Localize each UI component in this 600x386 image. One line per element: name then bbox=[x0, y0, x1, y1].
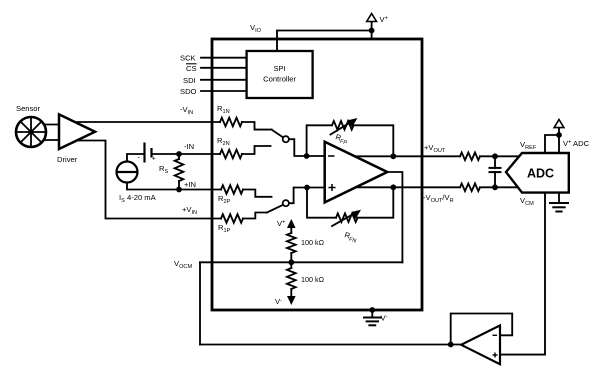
capacitor across outputs bbox=[494, 156, 496, 168]
node amp minus input bbox=[304, 153, 310, 159]
wire R1P to switch throw bbox=[243, 213, 267, 219]
wire amp VOCM apex line bbox=[385, 172, 402, 262]
wire buffer output rail bbox=[200, 344, 466, 346]
wire V+ stem to box bbox=[371, 22, 373, 40]
switch contact circle N bbox=[283, 136, 289, 142]
node V+ ADC junction bbox=[556, 132, 562, 138]
SPI Controller box bbox=[247, 51, 313, 98]
svg-text:Driver: Driver bbox=[57, 155, 78, 164]
wire switch P common to plus node bbox=[289, 188, 307, 204]
resistor R1N bbox=[220, 118, 242, 127]
wire R2P open stub bbox=[243, 190, 272, 197]
driver amp triangle bbox=[59, 114, 95, 149]
node V- box bottom bbox=[369, 307, 375, 313]
wire VREF loop bbox=[545, 135, 559, 153]
resistor output top bbox=[460, 153, 480, 161]
resistor RFN (variable) bbox=[336, 213, 358, 222]
svg-text:+: + bbox=[152, 156, 156, 163]
svg-text:-IN: -IN bbox=[184, 142, 194, 151]
wire battery to -IN rail bbox=[152, 153, 220, 155]
RFN arrow bbox=[332, 213, 356, 227]
current source IS bbox=[117, 162, 138, 183]
resistor output bottom bbox=[460, 184, 480, 192]
switch contact circle P bbox=[283, 200, 289, 206]
node +IN at RS bottom bbox=[176, 187, 182, 193]
buffer op-amp triangle bbox=[461, 325, 500, 364]
resistor R2N bbox=[220, 150, 242, 159]
node -VOUT feedback bbox=[390, 184, 396, 190]
node amp plus input bbox=[304, 185, 310, 191]
node capacitor bottom bbox=[492, 184, 498, 190]
wire sensor to driver bottom bbox=[42, 139, 62, 141]
wire V+ ADC stem bbox=[558, 128, 560, 135]
wire SDO bbox=[201, 90, 247, 92]
wire minus node to amp bbox=[307, 155, 330, 157]
ground ADC bbox=[550, 202, 568, 204]
node divider midpoint bbox=[288, 259, 294, 265]
switch blade P bbox=[267, 205, 283, 213]
ADC block bbox=[506, 153, 569, 193]
node buffer output bbox=[448, 342, 454, 348]
wire switch N common to minus node bbox=[289, 139, 307, 156]
svg-text:Sensor: Sensor bbox=[16, 104, 41, 113]
svg-text:SDO: SDO bbox=[180, 87, 197, 96]
svg-text:SCK: SCK bbox=[180, 54, 196, 63]
wire +VIN from driver bottom bbox=[74, 141, 221, 219]
sensor symbol bbox=[16, 117, 46, 147]
svg-text:CS: CS bbox=[186, 64, 197, 73]
RFP arrow bbox=[331, 121, 353, 135]
main diff amp triangle bbox=[325, 142, 388, 203]
resistor R1P bbox=[221, 214, 243, 223]
node -IN at RS top bbox=[176, 151, 182, 157]
wire +VOUT rail bbox=[352, 155, 460, 157]
node +VOUT feedback bbox=[390, 153, 396, 159]
switch blade N bbox=[272, 130, 284, 138]
wire RFN left vertical bbox=[307, 188, 336, 218]
svg-text:ADC: ADC bbox=[527, 167, 554, 181]
wire -VOUT rail bbox=[352, 186, 460, 188]
wire VIO bbox=[277, 31, 372, 52]
node VIO/V+ junction bbox=[369, 28, 375, 34]
resistor 100k lower bbox=[290, 262, 292, 268]
wire buffer plus input bbox=[499, 193, 545, 355]
power V- divider arrow bbox=[290, 289, 292, 297]
wire SDI bbox=[201, 79, 247, 81]
resistor RS bbox=[175, 159, 184, 181]
power V+ ADC (open triangle) bbox=[554, 120, 564, 128]
wire current source bottom to +IN rail bbox=[127, 182, 221, 190]
svg-text:SPI: SPI bbox=[273, 64, 285, 73]
svg-text:Controller: Controller bbox=[263, 75, 296, 84]
resistor 100k upper bbox=[287, 233, 296, 253]
svg-text:+IN: +IN bbox=[184, 180, 196, 189]
battery symbol bbox=[145, 143, 152, 163]
svg-text:100 kΩ: 100 kΩ bbox=[301, 275, 325, 284]
wire V- ground stem bbox=[371, 310, 373, 318]
wire R2N open stub bbox=[242, 146, 271, 154]
wire VOCM vertical bbox=[199, 262, 201, 344]
wire R1N to switch throw bbox=[242, 122, 272, 130]
ground V- (box bottom) bbox=[364, 317, 381, 319]
wire SCK bbox=[201, 57, 247, 59]
wire current source top to battery bbox=[127, 154, 144, 162]
power V+ divider arrow bbox=[290, 226, 292, 233]
wire sensor to driver top bbox=[42, 124, 62, 126]
wire buffer feedback loop bbox=[451, 314, 513, 345]
svg-text:100 kΩ: 100 kΩ bbox=[301, 238, 325, 247]
wire ADC ground stem bbox=[558, 193, 560, 203]
svg-text:V+ ADC: V+ ADC bbox=[563, 139, 590, 148]
resistor RFP (variable) bbox=[332, 121, 354, 130]
node capacitor top bbox=[492, 153, 498, 159]
main amplifier box U1 bbox=[212, 39, 422, 310]
wire VOCM horizontal bbox=[200, 261, 402, 263]
wire -VIN from driver to box bbox=[72, 121, 220, 123]
svg-text:SDI: SDI bbox=[183, 76, 196, 85]
wire RFP right vertical bbox=[354, 125, 394, 156]
resistor R2P bbox=[221, 185, 243, 194]
power V+ top (open triangle) bbox=[367, 14, 377, 22]
wire plus node to amp bbox=[307, 187, 330, 189]
wire RFP left vertical bbox=[307, 125, 332, 156]
wire CS bbox=[201, 67, 247, 69]
wire RFN right vertical bbox=[358, 187, 394, 217]
